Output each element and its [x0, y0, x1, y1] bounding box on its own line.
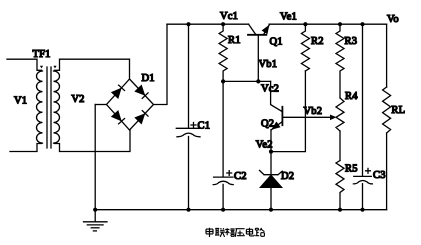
label Vb1 [259, 59, 278, 70]
capacitor C1 lead bottom [188, 137, 190, 210]
char dian [246, 228, 254, 236]
transformer TF1 primary bottom wire [10, 144, 42, 152]
svg-text:Q1: Q1 [270, 36, 283, 47]
svg-text:R1: R1 [228, 35, 241, 46]
transformer primary phase tick [40, 66, 43, 69]
resistor R1 [219, 24, 227, 81]
wire Q2 emitter to Ve2 node [270, 130, 272, 152]
svg-text:Vc1: Vc1 [220, 11, 238, 22]
transformer TF1 primary top wire [7, 59, 42, 70]
capacitor C2 lead bottom [222, 184, 224, 209]
node dot C3 bottom [360, 208, 364, 212]
svg-text:Q2: Q2 [261, 119, 274, 130]
label Vc1 [220, 11, 238, 22]
label R5 [345, 163, 358, 174]
svg-text:R4: R4 [345, 91, 358, 102]
label RL [391, 105, 405, 116]
node dot R2 top [303, 22, 307, 26]
node dot C1 top [186, 22, 190, 26]
potentiometer R4 wiper arrow [282, 115, 336, 121]
resistor RL lead top [386, 24, 388, 87]
label Vb2 [304, 106, 323, 117]
capacitor C2 [213, 171, 233, 185]
svg-text:RL: RL [391, 105, 405, 116]
svg-text:Vb1: Vb1 [259, 59, 278, 70]
svg-text:C2: C2 [234, 171, 247, 182]
node dot D2 bottom [269, 208, 273, 212]
node dot Vb1-Vc2 junction [256, 79, 260, 83]
caption 申联稳压电路 [206, 228, 264, 237]
capacitor C1 lead top [188, 24, 190, 128]
potentiometer R4 [336, 98, 344, 131]
svg-text:C1: C1 [198, 121, 211, 132]
wire R4 to R5 [339, 131, 341, 161]
transformer secondary phase tick [53, 66, 56, 69]
wire ground column [94, 105, 96, 210]
transformer TF1 primary winding V1 [37, 71, 43, 143]
svg-text:Ve1: Ve1 [280, 11, 297, 22]
label R3 [345, 36, 358, 47]
resistor R3 [336, 24, 344, 98]
zener diode D2 lead top [270, 152, 272, 175]
wire bridge right corner to top rail [154, 24, 168, 104]
svg-text:Ve2: Ve2 [256, 140, 273, 151]
node dot R1 top [221, 22, 225, 26]
node dot Ve2 [269, 150, 273, 154]
wire R2 bottom to Ve2 [271, 71, 305, 152]
node dot R1 bottom [221, 79, 225, 83]
capacitor C3 [353, 168, 372, 184]
label Ve2 [256, 140, 273, 151]
char shen [206, 228, 213, 237]
capacitor C3 lead bottom [362, 184, 364, 210]
transistor Q1 base bar [248, 34, 266, 36]
wire bridge left corner to ground column [95, 104, 106, 106]
node dot C3 top [360, 22, 364, 26]
char ya [235, 229, 245, 237]
transformer TF1 core [47, 67, 51, 148]
svg-text:TF1: TF1 [33, 49, 51, 60]
label C3 [373, 170, 386, 181]
char wen [225, 228, 235, 236]
resistor RL [383, 87, 391, 133]
wire top rail Vc1 [167, 23, 249, 25]
svg-text:D1: D1 [142, 73, 155, 84]
svg-text:V2: V2 [71, 94, 84, 105]
diode D1b top-right [136, 86, 149, 99]
zener diode D2 lead bottom [270, 187, 272, 209]
label D2 [281, 171, 294, 182]
label V1 [14, 95, 27, 106]
transistor Q1 collector [249, 24, 256, 34]
label Q1 [270, 36, 283, 47]
diode D1d bottom-right [136, 111, 149, 124]
capacitor C2 lead top [222, 81, 224, 176]
char lu [255, 228, 264, 236]
svg-text:V1: V1 [14, 95, 27, 106]
transformer TF1 secondary winding V2 [54, 71, 60, 143]
diode D1c bottom-left [112, 111, 125, 124]
char lian [215, 228, 225, 237]
wire node Vc2 horizontal [223, 80, 271, 82]
svg-text:Vc2: Vc2 [261, 83, 279, 94]
svg-text:R2: R2 [311, 36, 324, 47]
node dot C1 bottom [186, 208, 190, 212]
zener diode D2 [260, 170, 283, 187]
resistor RL lead bottom [386, 133, 388, 210]
bridge rectifier D1 diamond [107, 79, 154, 130]
svg-text:D2: D2 [281, 171, 294, 182]
svg-text:Vb2: Vb2 [304, 106, 323, 117]
capacitor C3 lead top [362, 24, 364, 176]
svg-text:R3: R3 [345, 36, 358, 47]
svg-text:C3: C3 [373, 170, 386, 181]
node dot ground left [93, 208, 97, 212]
label C1 [198, 121, 211, 132]
label Vo [387, 14, 399, 25]
label Ve1 [280, 11, 297, 22]
node dot C2 bottom [221, 208, 225, 212]
capacitor C1 [176, 123, 200, 137]
transistor Q2 emitter [269, 122, 282, 133]
svg-text:R5: R5 [345, 163, 358, 174]
resistor R2 [301, 24, 309, 71]
label R2 [311, 36, 324, 47]
wire secondary bottom to bridge bottom corner [55, 130, 131, 152]
label Vc2 [261, 83, 279, 94]
label TF1 [33, 49, 51, 60]
node dot R5 bottom [338, 208, 342, 212]
label C2 [234, 171, 247, 182]
node dot R3 top [338, 22, 342, 26]
resistor R5 [336, 161, 344, 210]
label R1 [228, 35, 241, 46]
transistor Q1 base lead [257, 35, 259, 82]
label R4 [345, 91, 358, 102]
wire secondary top to bridge top corner [55, 59, 130, 79]
wire top rail Ve1 [269, 23, 387, 25]
transistor Q2 collector wire [271, 81, 282, 111]
ground [84, 210, 108, 231]
label V2 [71, 94, 84, 105]
label Q2 [261, 119, 274, 130]
wire ground rail [95, 209, 386, 211]
diode D1a top-left [112, 85, 125, 98]
label D1 [142, 73, 155, 84]
transistor Q2 base bar [281, 107, 283, 125]
transistor Q1 emitter [262, 23, 273, 35]
svg-text:Vo: Vo [387, 14, 399, 25]
